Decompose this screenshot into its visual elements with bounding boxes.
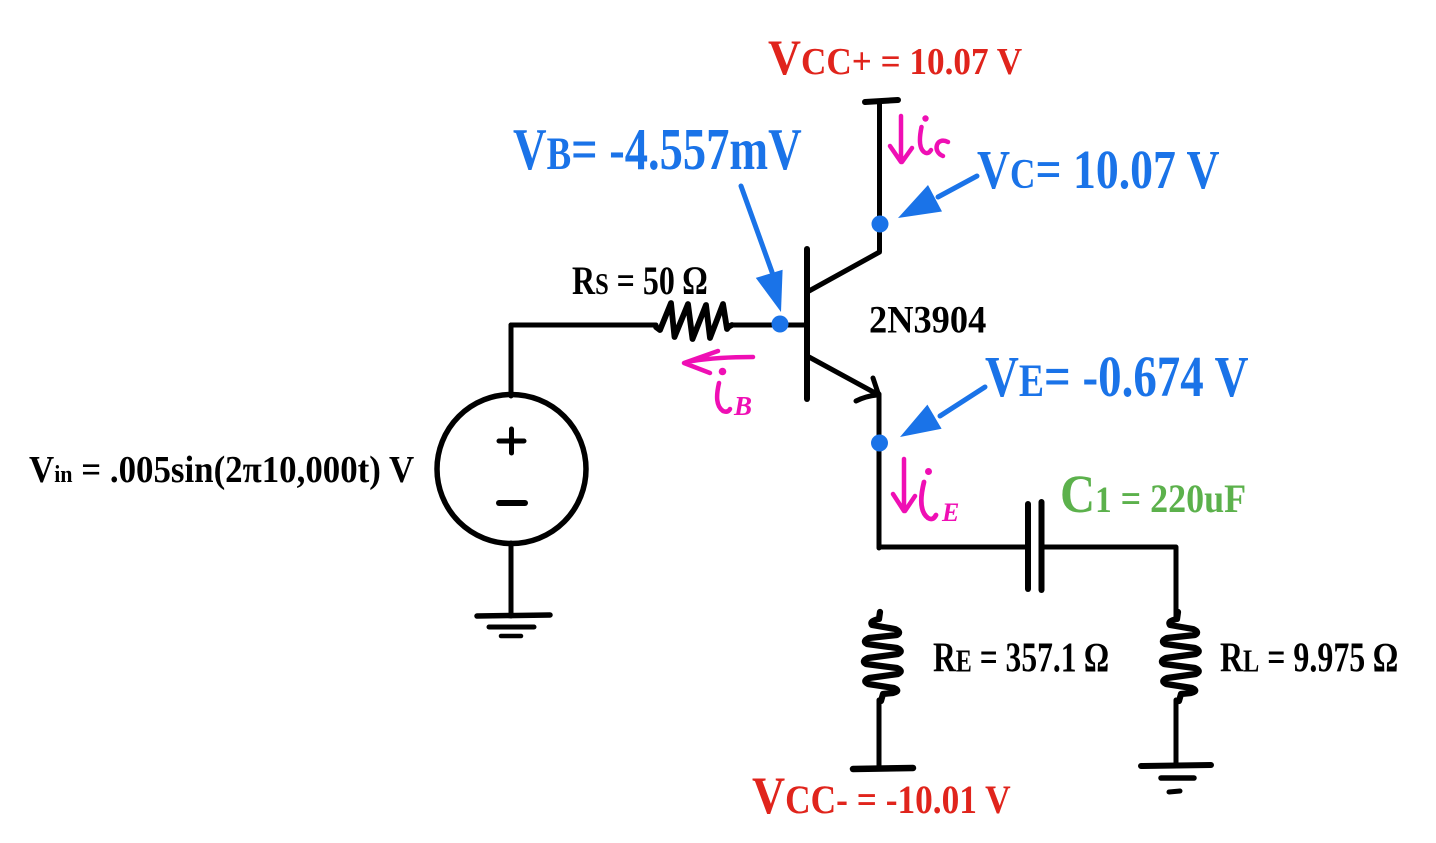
node VC label bbox=[977, 139, 1220, 200]
wire RL bottom bbox=[1174, 700, 1179, 765]
node VE label bbox=[985, 345, 1248, 409]
svg-text:VB= -4.557mV: VB= -4.557mV bbox=[513, 118, 802, 182]
current iB label bbox=[719, 368, 727, 376]
source Vin plus bbox=[499, 429, 524, 453]
source Vin circle bbox=[437, 395, 586, 544]
svg-text:Vin = .005sin(2π10,000t) V: Vin = .005sin(2π10,000t) V bbox=[29, 449, 414, 491]
wire emitter to capacitor bbox=[879, 545, 1025, 550]
svg-text:B: B bbox=[733, 391, 752, 421]
current iB arrow bbox=[684, 351, 753, 373]
power terminal VCC+ bbox=[865, 100, 898, 102]
resistor RL coil bbox=[1162, 612, 1199, 701]
wire capacitor to RL bbox=[1044, 547, 1176, 618]
ground source bbox=[477, 615, 550, 616]
transistor Q1 base bar bbox=[804, 249, 810, 399]
source Vin minus bbox=[499, 500, 525, 506]
svg-text:VC= 10.07 V: VC= 10.07 V bbox=[977, 139, 1220, 200]
capacitor C1 plates bbox=[1025, 504, 1031, 589]
current iE arrow bbox=[893, 459, 915, 511]
svg-text:C1 = 220uF: C1 = 220uF bbox=[1060, 465, 1246, 525]
current iE label bbox=[925, 468, 932, 475]
power terminal VCC- bbox=[853, 768, 913, 769]
node VCC- label bbox=[752, 766, 1011, 825]
svg-text:2N3904: 2N3904 bbox=[869, 298, 986, 342]
svg-text:RS = 50 Ω: RS = 50 Ω bbox=[572, 258, 707, 302]
arrow VE bbox=[940, 387, 985, 416]
svg-text:RE = 357.1 Ω: RE = 357.1 Ω bbox=[933, 635, 1109, 681]
resistor RE label bbox=[933, 635, 1109, 681]
node B dot bbox=[772, 316, 789, 333]
wire collector vertical bbox=[809, 102, 880, 291]
node C dot bbox=[872, 216, 889, 233]
wire base horizontal left segment bbox=[511, 323, 656, 328]
resistor RE coil bbox=[864, 612, 901, 701]
svg-text:VCC+ = 10.07 V: VCC+ = 10.07 V bbox=[768, 31, 1023, 85]
resistor RS label bbox=[572, 258, 707, 302]
wire emitter vertical bbox=[877, 394, 882, 548]
current ic arrow bbox=[890, 116, 912, 162]
svg-text:RL = 9.975 Ω: RL = 9.975 Ω bbox=[1220, 635, 1398, 681]
wire base horizontal right segment bbox=[734, 323, 806, 328]
svg-text:VCC- = -10.01 V: VCC- = -10.01 V bbox=[752, 766, 1011, 825]
transistor Q1 emitter arrowhead bbox=[856, 378, 878, 401]
resistor RS zigzag bbox=[656, 303, 732, 339]
svg-text:VE= -0.674 V: VE= -0.674 V bbox=[985, 345, 1248, 409]
arrow VB bbox=[741, 186, 772, 272]
svg-text:E: E bbox=[941, 498, 959, 527]
wire RE bottom bbox=[877, 700, 882, 767]
current ic label bbox=[922, 115, 928, 121]
node VB label bbox=[513, 118, 802, 182]
node E dot bbox=[871, 435, 888, 452]
source Vin wire top bbox=[509, 325, 514, 396]
arrow VC bbox=[938, 176, 977, 197]
resistor RL label bbox=[1220, 635, 1398, 681]
source Vin label bbox=[29, 449, 414, 491]
wire below source bbox=[509, 543, 514, 616]
transistor Q1 emitter lead bbox=[809, 357, 877, 394]
ground RL bbox=[1141, 765, 1211, 766]
capacitor C1 label bbox=[1060, 465, 1246, 525]
node VCC+ label bbox=[768, 31, 1023, 85]
transistor Q1 label 2N3904 bbox=[869, 298, 986, 342]
